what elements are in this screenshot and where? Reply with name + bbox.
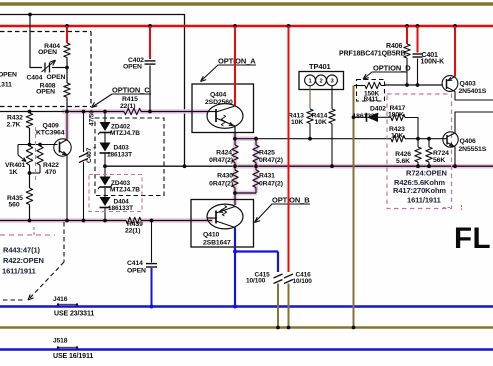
svg-text:R411: R411 [364, 96, 379, 103]
svg-text:10K: 10K [291, 119, 303, 126]
svg-text:100N-K: 100N-K [421, 59, 445, 66]
svg-text:56K: 56K [433, 157, 445, 164]
svg-text:C414: C414 [127, 260, 143, 267]
svg-text:C407: C407 [86, 147, 93, 163]
svg-text:1611/1911: 1611/1911 [407, 196, 441, 205]
svg-text:R417:270Kohm: R417:270Kohm [393, 186, 446, 195]
svg-text:0R47(2): 0R47(2) [209, 180, 233, 187]
svg-text:186133T: 186133T [108, 205, 133, 212]
svg-text:TP401: TP401 [309, 62, 331, 71]
svg-text:1311: 1311 [0, 82, 12, 89]
svg-text:FL: FL [454, 222, 491, 255]
svg-text:R422:OPEN: R422:OPEN [3, 256, 44, 265]
svg-text:0R47(2): 0R47(2) [259, 180, 283, 187]
svg-text:PRF18BC471QB5RB: PRF18BC471QB5RB [339, 51, 406, 58]
svg-text:2SD2560: 2SD2560 [205, 99, 233, 106]
svg-text:USE 23/3311: USE 23/3311 [54, 310, 94, 317]
svg-text:R431: R431 [259, 173, 275, 180]
svg-text:MTZJ4.7B: MTZJ4.7B [110, 186, 140, 193]
svg-text:J518: J518 [53, 337, 68, 344]
svg-text:180K: 180K [388, 111, 404, 118]
svg-text:Q404: Q404 [210, 91, 227, 98]
svg-text:2.7K: 2.7K [7, 121, 21, 128]
svg-text:10K: 10K [315, 119, 327, 126]
svg-text:186133T: 186133T [353, 113, 380, 120]
svg-text:2SB1647: 2SB1647 [203, 239, 231, 246]
svg-text:OPEN: OPEN [127, 268, 146, 275]
svg-text:10/100: 10/100 [246, 278, 266, 285]
svg-text:R443:47(1): R443:47(1) [3, 246, 41, 255]
svg-text:R424: R424 [216, 149, 232, 156]
svg-text:Q406: Q406 [460, 138, 477, 145]
svg-text:OPTION_B: OPTION_B [272, 195, 310, 204]
svg-text:1K: 1K [9, 169, 18, 176]
svg-text:5.6K: 5.6K [396, 158, 410, 165]
svg-text:10/100: 10/100 [293, 278, 313, 285]
svg-text:OPEN: OPEN [123, 64, 142, 71]
svg-text:560: 560 [9, 202, 20, 209]
svg-text:10K: 10K [391, 132, 403, 139]
svg-text:J416: J416 [53, 296, 68, 303]
svg-text:R724:OPEN: R724:OPEN [406, 168, 447, 177]
svg-text:R430: R430 [217, 173, 233, 180]
svg-text:2N5401S: 2N5401S [459, 88, 487, 95]
svg-text:OPTION_A: OPTION_A [218, 56, 256, 65]
svg-text:R422: R422 [43, 162, 59, 169]
svg-text:C404: C404 [27, 75, 43, 82]
svg-text:D402: D402 [370, 105, 386, 112]
svg-text:OPEN: OPEN [47, 74, 66, 81]
svg-text:KTC3964: KTC3964 [36, 129, 65, 136]
svg-text:OPEN: OPEN [0, 72, 17, 79]
svg-text:OPTION_D: OPTION_D [373, 63, 411, 72]
svg-text:186133T: 186133T [107, 151, 132, 158]
svg-text:OPTION_C: OPTION_C [112, 86, 150, 95]
svg-text:R406: R406 [386, 43, 403, 50]
svg-text:R415: R415 [122, 96, 138, 103]
svg-text:USE 16/1911: USE 16/1911 [53, 353, 93, 360]
svg-text:Q403: Q403 [460, 80, 477, 87]
svg-text:OPEN: OPEN [38, 49, 57, 56]
svg-text:0R47(2): 0R47(2) [209, 157, 233, 164]
svg-text:470: 470 [45, 169, 56, 176]
svg-text:Q409: Q409 [43, 122, 60, 129]
svg-text:Q410: Q410 [203, 231, 220, 238]
svg-text:MTZJ4.7B: MTZJ4.7B [110, 130, 140, 137]
svg-text:22(1): 22(1) [120, 103, 135, 110]
svg-text:22(1): 22(1) [125, 228, 140, 235]
svg-text:R425: R425 [259, 149, 275, 156]
svg-text:OPEN: OPEN [36, 88, 55, 95]
svg-text:1611/1911: 1611/1911 [2, 267, 36, 276]
svg-text:2: 2 [319, 79, 322, 85]
svg-text:0R47(2): 0R47(2) [259, 157, 283, 164]
svg-text:VR401: VR401 [5, 162, 26, 169]
svg-text:2N5551S: 2N5551S [459, 146, 487, 153]
